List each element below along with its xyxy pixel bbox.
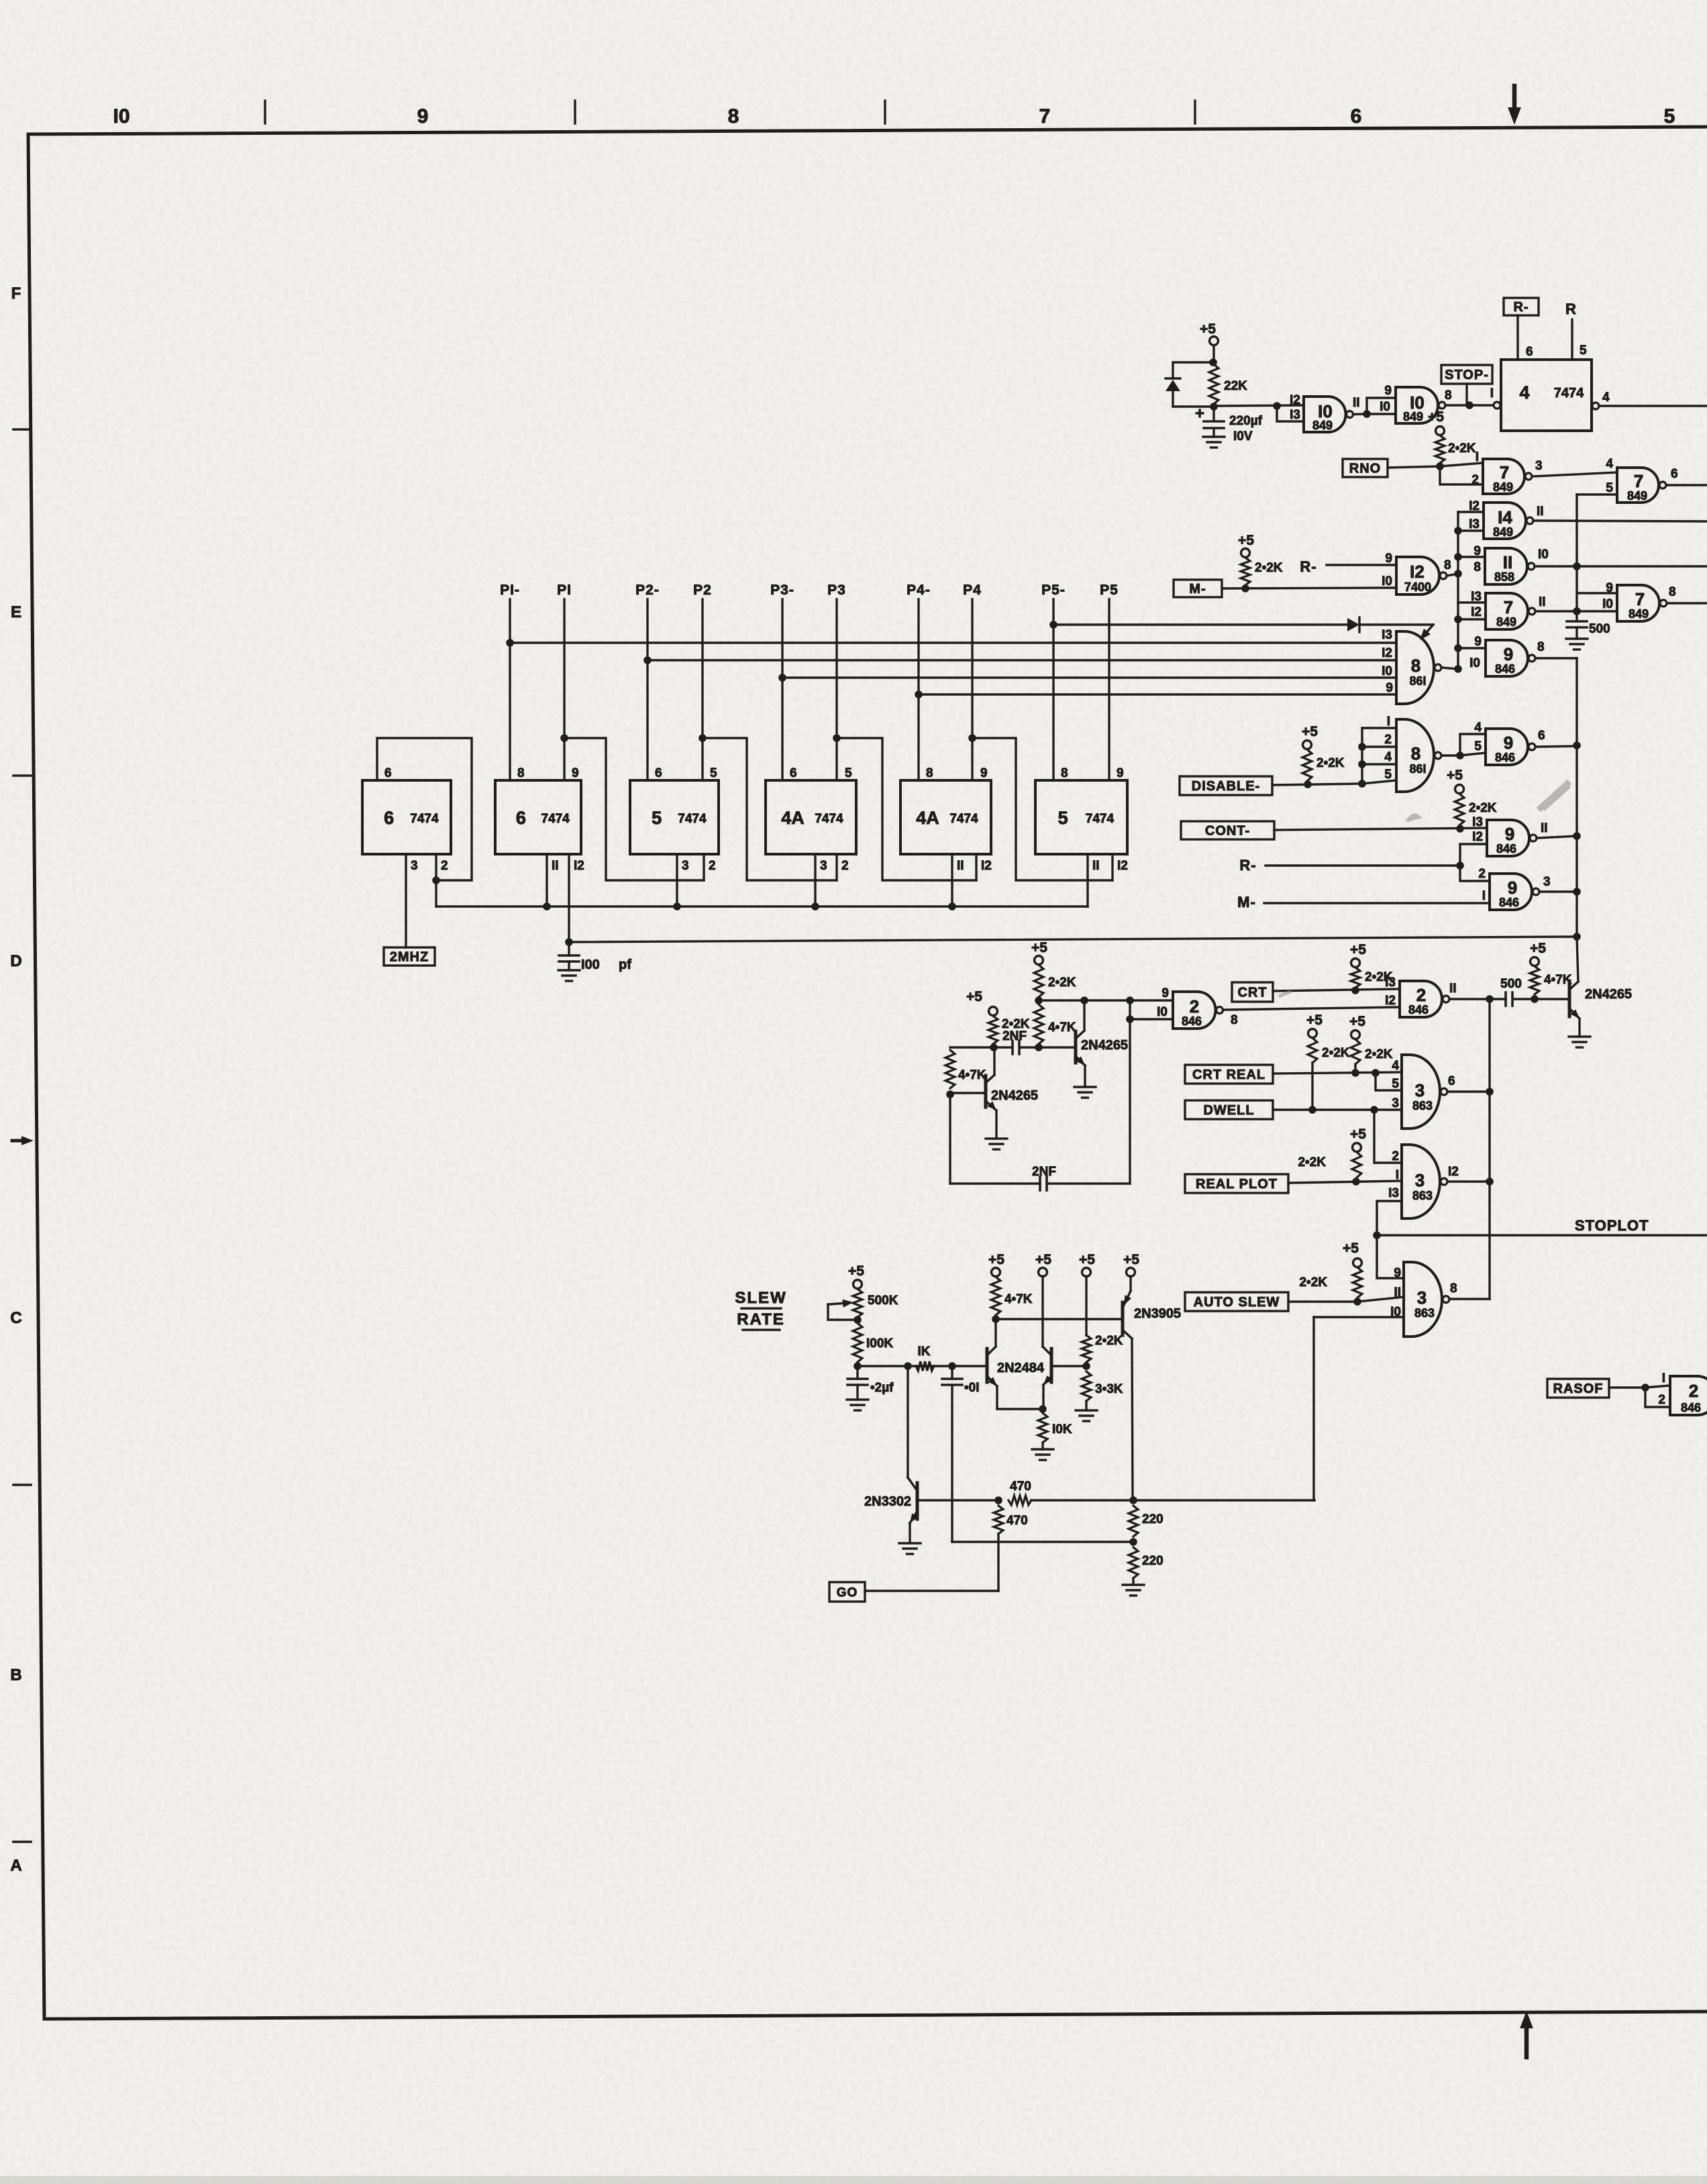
svg-text:•2µf: •2µf (870, 1381, 894, 1395)
svg-text:GO: GO (837, 1585, 858, 1600)
svg-text:2: 2 (1392, 1149, 1399, 1163)
svg-text:2MHZ: 2MHZ (390, 950, 429, 965)
svg-text:3•3K: 3•3K (1095, 1382, 1123, 1396)
svg-text:II: II (1394, 1286, 1401, 1300)
svg-text:+5: +5 (1447, 768, 1463, 783)
svg-text:F: F (11, 284, 21, 303)
svg-text:+5: +5 (1200, 321, 1216, 337)
svg-text:P4-: P4- (907, 582, 931, 598)
svg-text:4•7K: 4•7K (1004, 1292, 1033, 1306)
svg-text:6: 6 (1671, 467, 1678, 481)
svg-text:I0: I0 (1469, 656, 1480, 670)
svg-text:2N4265: 2N4265 (991, 1088, 1038, 1103)
svg-text:9: 9 (1386, 681, 1393, 695)
svg-text:I0: I0 (1538, 548, 1549, 562)
svg-text:4: 4 (1392, 1059, 1399, 1073)
svg-text:9: 9 (417, 105, 429, 127)
svg-text:DISABLE-: DISABLE- (1192, 779, 1260, 794)
svg-text:I: I (1490, 386, 1494, 401)
svg-text:7474: 7474 (1554, 386, 1584, 401)
svg-text:22K: 22K (1224, 379, 1247, 393)
svg-text:500: 500 (1500, 977, 1522, 991)
svg-text:2: 2 (441, 859, 448, 873)
svg-text:PI: PI (557, 582, 572, 598)
svg-text:846: 846 (1681, 1401, 1701, 1414)
svg-text:P4: P4 (963, 582, 982, 598)
svg-text:846: 846 (1499, 896, 1519, 909)
svg-text:5: 5 (845, 766, 852, 780)
svg-text:8: 8 (728, 105, 739, 127)
svg-text:470: 470 (1010, 1479, 1031, 1494)
svg-text:II: II (1092, 859, 1100, 873)
svg-text:2: 2 (1658, 1393, 1665, 1407)
svg-text:7: 7 (1635, 589, 1645, 609)
svg-text:I2: I2 (1382, 646, 1392, 660)
svg-text:7: 7 (1504, 597, 1513, 617)
svg-text:D: D (10, 952, 21, 970)
svg-text:STOPLOT: STOPLOT (1575, 1217, 1649, 1234)
svg-text:+5: +5 (1349, 1014, 1365, 1029)
svg-text:8: 8 (1669, 585, 1676, 599)
svg-text:3: 3 (682, 859, 689, 873)
svg-text:2•2K: 2•2K (1448, 441, 1476, 456)
svg-text:4: 4 (1474, 721, 1482, 735)
svg-text:6: 6 (790, 766, 797, 780)
svg-text:5: 5 (1664, 105, 1675, 127)
svg-text:2: 2 (1416, 985, 1426, 1005)
svg-text:+5: +5 (1428, 409, 1444, 425)
svg-text:4A: 4A (781, 808, 805, 828)
svg-text:+5: +5 (1123, 1252, 1139, 1267)
svg-text:846: 846 (1495, 751, 1515, 764)
svg-text:I2: I2 (574, 859, 584, 873)
svg-text:II: II (1539, 595, 1546, 609)
svg-text:5: 5 (1606, 481, 1613, 495)
svg-text:2N4265: 2N4265 (1081, 1038, 1128, 1053)
svg-text:I00K: I00K (866, 1337, 893, 1351)
svg-text:+5: +5 (988, 1252, 1004, 1267)
svg-text:2•2K: 2•2K (1298, 1155, 1326, 1169)
svg-text:8: 8 (1444, 558, 1451, 572)
svg-text:3: 3 (1543, 875, 1551, 889)
svg-text:858: 858 (1494, 570, 1514, 584)
svg-text:2•2K: 2•2K (1095, 1334, 1123, 1348)
svg-text:3: 3 (820, 859, 827, 873)
svg-text:C: C (10, 1309, 21, 1327)
svg-text:I2: I2 (1385, 994, 1396, 1008)
svg-text:2N4265: 2N4265 (1585, 987, 1632, 1002)
svg-text:2N3905: 2N3905 (1134, 1306, 1181, 1321)
svg-text:IK: IK (918, 1345, 931, 1359)
svg-text:7: 7 (1039, 105, 1051, 127)
svg-text:8: 8 (1061, 766, 1068, 780)
svg-text:9: 9 (1161, 986, 1169, 1000)
svg-text:I2: I2 (1117, 859, 1128, 873)
svg-text:7474: 7474 (541, 812, 570, 826)
svg-text:REAL PLOT: REAL PLOT (1196, 1177, 1278, 1192)
svg-text:8: 8 (1445, 388, 1452, 403)
svg-text:220µf: 220µf (1229, 414, 1263, 428)
svg-text:3: 3 (1392, 1096, 1399, 1110)
svg-text:849: 849 (1627, 489, 1647, 503)
svg-text:849: 849 (1312, 419, 1333, 432)
svg-text:I2: I2 (1410, 562, 1425, 582)
svg-text:4A: 4A (916, 808, 939, 828)
svg-text:849: 849 (1493, 480, 1513, 494)
svg-text:I3: I3 (1469, 517, 1480, 531)
svg-text:I2: I2 (1448, 1165, 1459, 1179)
svg-text:M-: M- (1237, 894, 1256, 911)
svg-text:+5: +5 (1031, 940, 1047, 955)
svg-text:9: 9 (1117, 766, 1124, 780)
svg-text:+5: +5 (1238, 533, 1254, 548)
svg-text:CRT: CRT (1237, 986, 1267, 1000)
svg-text:3: 3 (1417, 1288, 1427, 1308)
svg-text:I2: I2 (1469, 499, 1480, 513)
svg-text:7400: 7400 (1404, 580, 1431, 594)
svg-text:6: 6 (384, 766, 392, 780)
svg-text:5: 5 (1474, 739, 1482, 753)
svg-text:2N2484: 2N2484 (997, 1361, 1045, 1375)
svg-text:4: 4 (1519, 382, 1529, 403)
svg-text:B: B (10, 1666, 21, 1684)
svg-text:6: 6 (384, 808, 394, 828)
svg-text:2NF: 2NF (1032, 1165, 1056, 1179)
svg-text:6: 6 (516, 808, 526, 828)
svg-text:P3-: P3- (770, 582, 794, 598)
svg-text:2: 2 (1478, 867, 1486, 881)
svg-text:CONT-: CONT- (1205, 824, 1250, 839)
svg-text:P2: P2 (693, 582, 712, 598)
svg-text:II: II (957, 859, 964, 873)
svg-text:4: 4 (1384, 750, 1392, 764)
svg-text:2•2K: 2•2K (1322, 1046, 1350, 1060)
svg-text:II: II (1537, 505, 1544, 519)
svg-text:I0V: I0V (1233, 429, 1253, 444)
svg-text:8: 8 (926, 766, 933, 780)
svg-text:7474: 7474 (815, 812, 843, 826)
svg-text:+5: +5 (1343, 1241, 1359, 1256)
svg-text:SLEW: SLEW (735, 1289, 786, 1307)
svg-text:RNO: RNO (1349, 462, 1381, 476)
svg-text:7: 7 (1634, 471, 1643, 491)
svg-text:9: 9 (1505, 824, 1514, 844)
svg-text:E: E (11, 603, 21, 621)
svg-text:2•2K: 2•2K (1316, 756, 1345, 770)
svg-text:9: 9 (980, 766, 988, 780)
svg-text:9: 9 (1504, 733, 1513, 753)
svg-text:I3: I3 (1471, 590, 1482, 604)
svg-text:R-: R- (1300, 558, 1316, 575)
svg-text:3: 3 (411, 859, 418, 873)
svg-text:P5: P5 (1100, 582, 1119, 598)
svg-text:+5: +5 (1350, 1127, 1366, 1142)
svg-text:II: II (1449, 982, 1457, 996)
svg-text:9: 9 (1384, 384, 1392, 398)
svg-text:I4: I4 (1498, 507, 1512, 527)
svg-text:4: 4 (1602, 391, 1610, 405)
svg-text:6: 6 (1538, 729, 1545, 743)
svg-text:6: 6 (1351, 105, 1362, 127)
svg-text:I0: I0 (1382, 664, 1392, 678)
svg-text:3: 3 (1415, 1080, 1425, 1100)
svg-text:5: 5 (652, 808, 662, 828)
svg-text:+5: +5 (848, 1263, 864, 1279)
svg-text:R: R (1565, 301, 1576, 317)
svg-text:pf: pf (619, 957, 631, 972)
svg-text:I: I (1476, 450, 1479, 464)
svg-text:I2: I2 (981, 859, 992, 873)
svg-text:I2: I2 (1471, 605, 1482, 619)
svg-text:863: 863 (1414, 1306, 1435, 1320)
svg-text:+5: +5 (1530, 941, 1546, 956)
svg-text:A: A (10, 1857, 21, 1875)
svg-text:CRT REAL: CRT REAL (1192, 1068, 1265, 1082)
svg-text:5: 5 (710, 766, 717, 780)
svg-text:2N3302: 2N3302 (864, 1494, 911, 1509)
svg-text:9: 9 (1473, 544, 1481, 558)
svg-text:P2-: P2- (635, 582, 660, 598)
svg-text:9: 9 (1508, 878, 1517, 898)
svg-text:I: I (1662, 1371, 1665, 1386)
svg-text:7474: 7474 (949, 812, 978, 826)
svg-text:9: 9 (1606, 581, 1613, 595)
svg-text:8: 8 (1231, 1013, 1238, 1027)
svg-text:8: 8 (1537, 640, 1545, 654)
svg-text:I3: I3 (1290, 408, 1300, 422)
svg-text:2: 2 (1471, 473, 1479, 487)
svg-text:863: 863 (1412, 1189, 1433, 1202)
svg-text:R-: R- (1513, 300, 1529, 315)
svg-text:9: 9 (572, 766, 579, 780)
svg-text:9: 9 (1385, 552, 1392, 566)
svg-text:I3: I3 (1388, 1186, 1399, 1200)
svg-text:9: 9 (1394, 1266, 1401, 1280)
svg-text:2: 2 (1384, 733, 1392, 747)
svg-text:I3: I3 (1472, 815, 1483, 829)
svg-text:8: 8 (517, 766, 525, 780)
svg-text:849: 849 (1628, 607, 1649, 621)
svg-text:2•2K: 2•2K (1469, 801, 1497, 815)
svg-text:846: 846 (1495, 662, 1515, 676)
svg-text:2: 2 (1190, 996, 1199, 1017)
svg-text:I0: I0 (1380, 400, 1390, 414)
svg-text:7474: 7474 (410, 812, 439, 826)
svg-text:I2: I2 (1290, 393, 1300, 407)
svg-text:I0: I0 (113, 105, 130, 127)
svg-text:4•7K: 4•7K (1048, 1021, 1076, 1035)
svg-text:I3: I3 (1382, 628, 1392, 642)
svg-text:8: 8 (1411, 743, 1420, 764)
svg-text:I: I (1387, 715, 1390, 729)
svg-text:P5-: P5- (1041, 582, 1066, 598)
svg-text:+5: +5 (1306, 1012, 1323, 1028)
svg-text:470: 470 (1006, 1514, 1028, 1528)
svg-text:II: II (1353, 396, 1360, 410)
svg-text:86I: 86I (1409, 674, 1426, 688)
svg-text:5: 5 (1384, 768, 1392, 782)
svg-text:6: 6 (1526, 345, 1533, 359)
svg-text:7: 7 (1500, 462, 1509, 482)
svg-text:4•7K: 4•7K (958, 1068, 986, 1082)
svg-text:+5: +5 (966, 989, 982, 1004)
svg-text:R-: R- (1239, 857, 1256, 874)
svg-text:PI-: PI- (500, 582, 520, 598)
svg-text:9: 9 (1474, 635, 1482, 649)
svg-text:849: 849 (1493, 525, 1513, 539)
svg-text:2: 2 (709, 859, 716, 873)
svg-text:7474: 7474 (1086, 812, 1115, 826)
svg-text:846: 846 (1408, 1003, 1429, 1017)
svg-text:3: 3 (1415, 1170, 1425, 1190)
svg-text:9: 9 (1504, 644, 1513, 664)
svg-text:2: 2 (1689, 1381, 1698, 1401)
svg-text:I3: I3 (1385, 976, 1396, 990)
svg-text:220: 220 (1142, 1554, 1163, 1568)
svg-text:II: II (1503, 552, 1512, 572)
svg-text:8: 8 (1411, 656, 1420, 676)
svg-text:849: 849 (1496, 615, 1516, 629)
svg-text:RASOF: RASOF (1553, 1382, 1604, 1396)
svg-text:+5: +5 (1035, 1252, 1051, 1267)
svg-text:846: 846 (1182, 1015, 1202, 1028)
svg-text:M-: M- (1189, 582, 1206, 596)
svg-text:I0: I0 (1602, 597, 1613, 611)
svg-text:863: 863 (1412, 1099, 1433, 1112)
svg-text:220: 220 (1142, 1512, 1163, 1526)
svg-text:+5: +5 (1302, 724, 1318, 739)
svg-text:5: 5 (1058, 808, 1068, 828)
svg-text:+: + (1195, 405, 1204, 423)
svg-text:+5: +5 (1079, 1252, 1095, 1267)
svg-text:2•2K: 2•2K (1365, 1047, 1393, 1061)
svg-text:500K: 500K (868, 1294, 898, 1308)
svg-text:2NF: 2NF (1002, 1029, 1027, 1043)
svg-text:500: 500 (1589, 622, 1610, 636)
svg-text:+5: +5 (1350, 942, 1366, 957)
svg-text:846: 846 (1496, 842, 1516, 855)
svg-text:P3: P3 (827, 582, 846, 598)
svg-text:RATE: RATE (737, 1310, 785, 1329)
svg-text:7474: 7474 (678, 812, 707, 826)
svg-text:STOP-: STOP- (1445, 368, 1489, 382)
svg-text:I: I (1482, 889, 1486, 903)
svg-text:DWELL: DWELL (1203, 1103, 1254, 1118)
svg-text:2: 2 (841, 859, 849, 873)
svg-text:8: 8 (1450, 1282, 1457, 1296)
svg-text:I00: I00 (581, 957, 600, 972)
svg-text:3: 3 (1535, 459, 1543, 473)
svg-text:AUTO SLEW: AUTO SLEW (1194, 1295, 1280, 1310)
svg-text:2•2K: 2•2K (1048, 976, 1076, 990)
svg-text:II: II (1541, 821, 1548, 835)
svg-text:I0: I0 (1382, 574, 1392, 588)
svg-text:I2: I2 (1472, 830, 1483, 844)
svg-text:8: 8 (1473, 560, 1481, 574)
svg-text:6: 6 (655, 766, 662, 780)
svg-text:II: II (552, 859, 559, 873)
svg-text:86I: 86I (1409, 762, 1426, 776)
svg-text:5: 5 (1392, 1077, 1399, 1091)
svg-text:4: 4 (1606, 457, 1613, 471)
svg-text:849: 849 (1403, 410, 1423, 423)
svg-text:5: 5 (1580, 344, 1587, 358)
svg-text:2•2K: 2•2K (1255, 561, 1283, 575)
svg-text:I0: I0 (1157, 1005, 1168, 1019)
svg-text:•0I: •0I (964, 1381, 980, 1395)
svg-text:I: I (1396, 1168, 1399, 1182)
svg-text:6: 6 (1448, 1074, 1455, 1088)
svg-text:I0K: I0K (1052, 1422, 1072, 1437)
svg-text:2•2K: 2•2K (1299, 1276, 1327, 1290)
